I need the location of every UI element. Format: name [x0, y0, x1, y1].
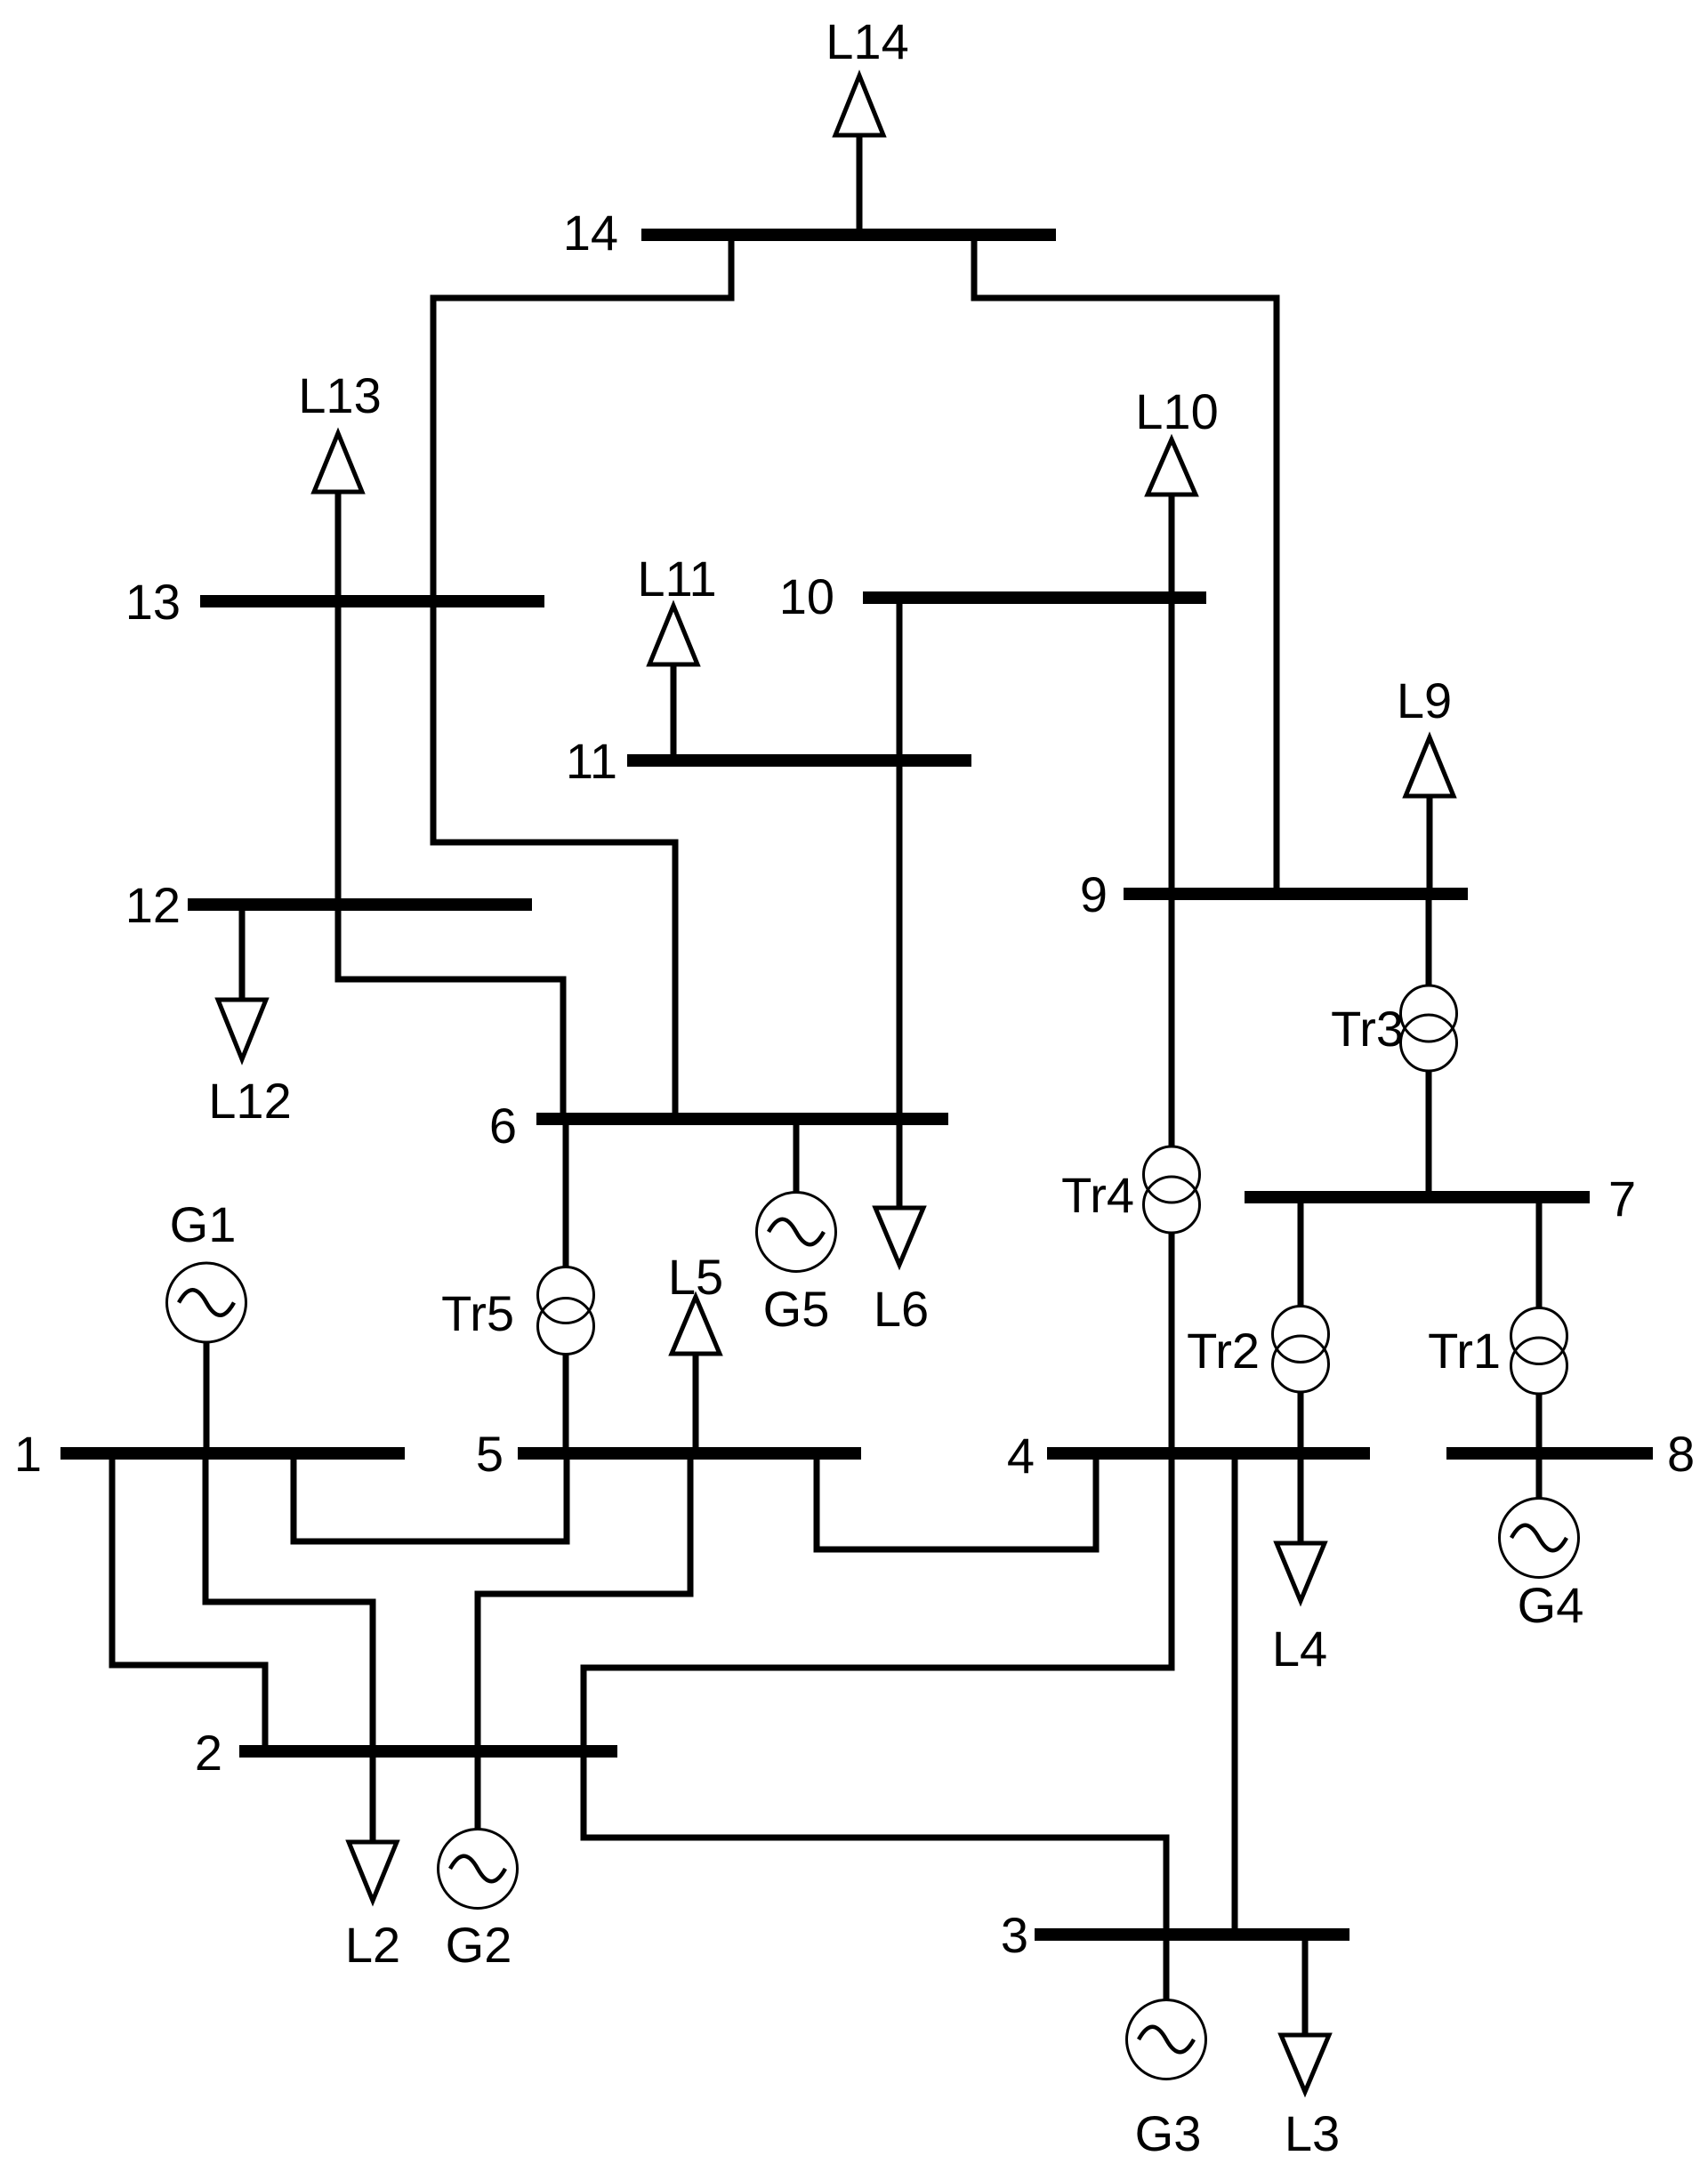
bus 13	[200, 595, 544, 607]
svg-text:Tr5: Tr5	[441, 1285, 514, 1341]
svg-text:Tr3: Tr3	[1331, 1001, 1404, 1057]
svg-text:10: 10	[779, 568, 834, 624]
bus 2	[239, 1745, 617, 1758]
svg-text:L4: L4	[1272, 1621, 1327, 1677]
bus 12	[188, 898, 532, 911]
wire 1-5	[294, 1453, 567, 1541]
svg-text:9: 9	[1080, 866, 1108, 922]
load L12	[208, 905, 291, 1129]
bus 9	[1124, 888, 1468, 900]
bus 1	[60, 1447, 405, 1460]
bus 7	[1245, 1191, 1590, 1203]
svg-text:G5: G5	[763, 1281, 830, 1337]
bus 14	[641, 229, 1056, 241]
load L11	[637, 551, 716, 760]
svg-text:Tr4: Tr4	[1061, 1167, 1134, 1223]
generator G4	[1500, 1453, 1584, 1633]
wire 5-4	[817, 1453, 1096, 1549]
load L14	[826, 13, 908, 235]
svg-text:G4: G4	[1518, 1577, 1584, 1633]
bus 6	[536, 1113, 948, 1125]
transformer Tr1	[1428, 1197, 1567, 1453]
svg-text:3: 3	[1001, 1907, 1028, 1963]
svg-text:L5: L5	[668, 1249, 723, 1305]
wire 13-6	[433, 601, 675, 1119]
svg-text:12: 12	[125, 877, 181, 933]
wire 2-3	[584, 1751, 1166, 1935]
svg-text:13: 13	[125, 574, 181, 630]
svg-text:L14: L14	[826, 13, 908, 69]
bus 5	[518, 1447, 861, 1460]
transformer Tr3	[1331, 894, 1456, 1197]
svg-text:L6: L6	[874, 1281, 929, 1337]
svg-text:L13: L13	[298, 367, 381, 423]
svg-text:G1: G1	[170, 1196, 237, 1252]
svg-text:L9: L9	[1397, 672, 1452, 728]
load L9	[1397, 672, 1454, 894]
generator G5	[757, 1119, 836, 1337]
load L4	[1272, 1453, 1327, 1677]
wire 11-6	[897, 760, 903, 1119]
wire 5-2	[478, 1453, 690, 1751]
svg-text:L11: L11	[637, 551, 716, 607]
svg-text:4: 4	[1007, 1428, 1035, 1484]
wire 14-9	[974, 235, 1277, 894]
wire 4-3	[1232, 1453, 1238, 1935]
svg-text:1: 1	[14, 1426, 42, 1482]
svg-text:5: 5	[476, 1426, 504, 1482]
wire 1-2 b	[205, 1453, 373, 1751]
svg-text:Tr1: Tr1	[1428, 1323, 1501, 1379]
load L3	[1281, 1935, 1340, 2161]
svg-text:6: 6	[489, 1098, 517, 1154]
wire 14-13	[433, 235, 731, 601]
bus 10	[863, 591, 1206, 604]
load L5	[668, 1249, 723, 1453]
svg-text:11: 11	[566, 733, 617, 789]
wire 2-4	[584, 1453, 1172, 1751]
transformer Tr5	[441, 1119, 593, 1453]
svg-text:2: 2	[195, 1725, 222, 1781]
bus 11	[627, 754, 971, 767]
svg-text:L3: L3	[1285, 2105, 1340, 2161]
load L6	[874, 1119, 929, 1337]
wire 12-6	[338, 905, 563, 1119]
wire 10-9	[1169, 598, 1175, 894]
wire 10-11	[897, 598, 903, 760]
load L2	[345, 1751, 400, 1973]
wire 1-2 a	[112, 1453, 265, 1751]
bus 8	[1446, 1447, 1653, 1460]
load L13	[298, 367, 381, 601]
transformer Tr2	[1187, 1197, 1328, 1453]
transformer Tr4	[1061, 894, 1199, 1453]
svg-text:7: 7	[1608, 1170, 1636, 1227]
bus 3	[1035, 1928, 1349, 1941]
bus 4	[1047, 1447, 1370, 1460]
wire 13-12	[335, 601, 342, 905]
generator G3	[1127, 1935, 1206, 2161]
svg-text:G3: G3	[1135, 2105, 1202, 2161]
svg-text:8: 8	[1667, 1426, 1695, 1482]
svg-text:14: 14	[563, 205, 618, 261]
svg-text:L12: L12	[208, 1073, 291, 1129]
svg-text:L10: L10	[1135, 383, 1218, 439]
svg-text:L2: L2	[345, 1917, 400, 1973]
generator G2	[439, 1751, 518, 1973]
generator G1	[167, 1196, 246, 1453]
load L10	[1135, 383, 1218, 598]
svg-text:Tr2: Tr2	[1187, 1323, 1260, 1379]
svg-text:G2: G2	[446, 1917, 512, 1973]
